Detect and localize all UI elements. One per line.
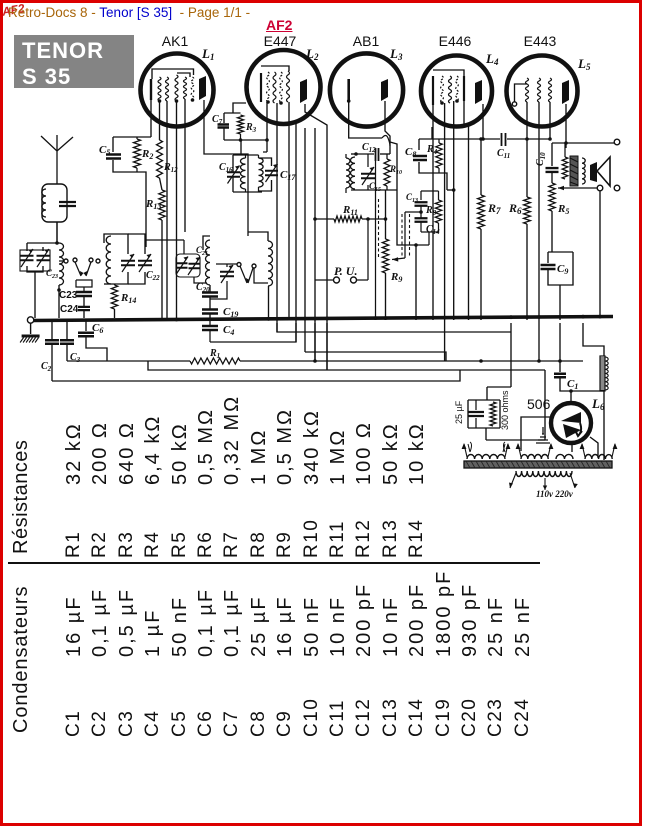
table row C20 <box>459 698 480 737</box>
table row C7 <box>221 710 242 737</box>
svg-text:R11: R11 <box>342 204 358 217</box>
table row C2 <box>89 710 110 737</box>
table row R1 <box>63 531 84 558</box>
shield dashed box <box>379 199 410 258</box>
table row R3 <box>116 531 137 558</box>
table header Resistances <box>10 440 32 554</box>
svg-text:R7: R7 <box>487 201 501 216</box>
resistor R5 potentiometer <box>549 183 570 216</box>
resistor R7 <box>478 139 501 320</box>
output terminals <box>614 139 620 145</box>
svg-text:R6: R6 <box>508 201 522 216</box>
svg-text:300 ohms: 300 ohms <box>500 390 510 430</box>
506 filament feed <box>571 442 573 452</box>
band switch contacts <box>59 258 100 276</box>
secondary winding below <box>509 471 578 499</box>
table header Condensateurs <box>10 586 32 733</box>
loudspeaker <box>590 157 610 186</box>
resistor R10 <box>384 154 402 190</box>
osc switch <box>237 263 268 284</box>
svg-text:110v 220v: 110v 220v <box>536 489 574 499</box>
svg-text:E447: E447 <box>264 33 297 49</box>
svg-text:P. U.: P. U. <box>334 264 357 278</box>
table row R6 <box>195 531 216 558</box>
tuned circuit frame <box>351 189 397 191</box>
capacitor C11 <box>497 133 510 160</box>
svg-text:E446: E446 <box>439 33 472 49</box>
wire runs E446 leads <box>432 105 434 320</box>
resistor R11 <box>313 204 387 222</box>
svg-text:R3: R3 <box>245 122 257 134</box>
anode line to output <box>552 142 614 144</box>
capacitor C5 <box>99 137 151 172</box>
svg-text:C17: C17 <box>280 169 296 182</box>
page header <box>8 5 250 20</box>
anode supply rail <box>419 138 500 140</box>
svg-text:R4: R4 <box>426 144 438 156</box>
wire runs AB1 leads <box>349 101 382 138</box>
variable capacitor C21 pair <box>145 240 208 283</box>
AK1 anode lead <box>204 100 248 236</box>
svg-text:C21: C21 <box>196 245 208 257</box>
svg-text:C11: C11 <box>497 148 510 160</box>
capacitor C23 fixed <box>59 280 92 306</box>
svg-text:25 µF: 25 µF <box>454 400 464 424</box>
trimmer C17 <box>259 158 297 191</box>
svg-text:L6: L6 <box>591 396 605 412</box>
svg-text:L5: L5 <box>577 56 591 72</box>
staircase rail 1 <box>277 323 511 332</box>
filter capacitor block 25uF 300ohms <box>454 387 511 430</box>
svg-text:R5: R5 <box>557 203 569 216</box>
table row C10 <box>301 698 322 737</box>
speaker wiper line <box>558 187 597 189</box>
table row C11 <box>327 699 348 737</box>
header AF2 pencil note <box>1 1 26 19</box>
capacitor C8 + resistor R4 <box>405 139 456 192</box>
svg-text:R9: R9 <box>390 271 402 284</box>
coil L second <box>104 234 111 284</box>
antenna tank coil <box>42 184 76 243</box>
table row C5 <box>169 710 190 737</box>
table row R8 <box>248 531 269 558</box>
table row C13 <box>380 698 401 737</box>
svg-text:R14: R14 <box>120 292 136 305</box>
capacitor C13 <box>405 191 439 218</box>
svg-text:L3: L3 <box>389 46 403 62</box>
antenna terminal <box>27 317 33 323</box>
506 anode-left feed <box>521 417 551 451</box>
tube V2 E447 <box>247 50 321 124</box>
tube V3 AB1 <box>330 53 403 126</box>
input coil <box>57 243 63 318</box>
svg-text:506: 506 <box>527 396 551 412</box>
capacitor C3 <box>60 320 81 364</box>
table row C4 <box>142 710 163 737</box>
lower rail 3 <box>148 323 545 370</box>
variable capacitor C15 <box>361 154 381 193</box>
wire runs E447 leads <box>266 102 268 152</box>
capacitor C20 <box>196 282 218 309</box>
svg-text:C3: C3 <box>70 352 81 364</box>
resistor R2 <box>134 137 154 247</box>
staircase rail 3 <box>305 352 446 361</box>
table row C3 <box>116 710 137 737</box>
stub to E446 <box>431 127 433 139</box>
windings above core <box>467 454 505 459</box>
mains choke coil L6 <box>600 356 608 460</box>
table separator line <box>8 562 540 564</box>
bottom rail C <box>52 370 460 381</box>
svg-text:E443: E443 <box>524 33 557 49</box>
capacitor C19 <box>202 306 238 319</box>
table row R13 <box>380 519 401 558</box>
svg-text:C9: C9 <box>557 263 568 276</box>
capacitor C6 <box>78 320 107 361</box>
table row C14 <box>406 698 427 737</box>
variable capacitor C22a <box>111 234 135 284</box>
table row R2 <box>89 531 110 558</box>
capacitor C12 <box>356 142 390 161</box>
svg-text:C23: C23 <box>46 268 58 280</box>
capacitor C2 <box>41 320 59 381</box>
capacitor C4 below bus <box>202 321 234 342</box>
lower rail 2 <box>67 360 190 362</box>
svg-text:R13: R13 <box>145 198 161 211</box>
svg-text:C24: C24 <box>60 304 79 315</box>
table row R14 <box>406 519 427 558</box>
svg-text:AB1: AB1 <box>353 33 380 49</box>
svg-text:C19: C19 <box>223 306 238 319</box>
osc coil A <box>203 236 210 285</box>
IF transformer C16 C17 <box>219 141 263 192</box>
staircase rail 4 / ground return <box>314 323 316 361</box>
capacitor C10 <box>535 143 559 183</box>
svg-text:R2: R2 <box>141 148 153 161</box>
resistor R6 <box>508 139 530 320</box>
power section wires <box>544 370 546 440</box>
svg-text:C2: C2 <box>41 361 52 373</box>
output transformer primary <box>562 157 568 179</box>
svg-text:R8: R8 <box>425 205 437 217</box>
capacitor C9 <box>541 211 574 320</box>
table row C24 <box>512 698 533 737</box>
ground bus <box>32 317 613 321</box>
table row R11 <box>327 520 348 558</box>
table row C19 <box>433 698 454 737</box>
detector coil <box>346 152 358 193</box>
table row R12 <box>353 519 374 558</box>
resistor R12 <box>157 101 179 178</box>
bus drop wires right <box>559 323 561 361</box>
antenna <box>41 136 57 184</box>
svg-text:C22: C22 <box>146 270 160 282</box>
variable capacitor C22 <box>128 234 160 284</box>
transformer core <box>464 461 612 468</box>
capacitor C14 <box>409 218 440 320</box>
svg-text:L2: L2 <box>305 46 319 62</box>
horizontal connects top <box>263 151 267 153</box>
dual variable capacitor C23 <box>20 222 59 318</box>
tube V4 E446 <box>421 56 492 127</box>
resistor R1 <box>190 348 583 364</box>
table row C1 <box>63 710 84 737</box>
output transformer core <box>570 156 578 186</box>
tube V5 E443 <box>507 56 578 127</box>
model name box <box>14 35 134 88</box>
resistor R13 <box>145 178 165 320</box>
resistor R9 potentiometer <box>382 190 405 320</box>
primary winding left <box>468 442 505 452</box>
svg-text:C16: C16 <box>219 162 233 174</box>
svg-text:AK1: AK1 <box>162 33 189 49</box>
wires AK1 leads <box>150 100 152 137</box>
table row C6 <box>195 710 216 737</box>
svg-text:C12: C12 <box>362 142 376 154</box>
P.U. terminals <box>315 219 368 283</box>
osc coil B <box>248 232 273 320</box>
table row C8 <box>248 710 269 737</box>
wire runs E443 leads <box>526 102 528 139</box>
table row R10 <box>301 519 322 558</box>
staircase rail 2 <box>210 323 296 342</box>
svg-text:C6: C6 <box>92 322 103 335</box>
resistor R14 <box>111 284 136 318</box>
svg-text:C10: C10 <box>535 152 547 166</box>
small ground at transformer <box>542 427 544 434</box>
winding arrows <box>464 444 467 457</box>
table row R5 <box>169 531 190 558</box>
ground symbol left <box>30 323 32 334</box>
svg-text:C23: C23 <box>59 290 78 301</box>
table row C23 <box>485 698 506 737</box>
table row R4 <box>142 531 163 558</box>
table row R7 <box>221 531 242 558</box>
svg-text:C1: C1 <box>567 378 578 391</box>
red AF2 label <box>266 17 292 33</box>
svg-text:R10: R10 <box>389 164 402 176</box>
capacitor C1 <box>554 361 604 404</box>
mid vertical wires <box>295 123 297 342</box>
svg-text:C8: C8 <box>405 146 416 159</box>
svg-text:C4: C4 <box>223 324 234 337</box>
svg-text:R1: R1 <box>209 348 220 360</box>
bus junction dots <box>175 318 179 322</box>
table row C12 <box>353 698 374 737</box>
svg-text:L4: L4 <box>485 51 499 67</box>
resistor R8 <box>425 191 442 232</box>
svg-text:C5: C5 <box>99 144 110 157</box>
output transformer secondary <box>582 158 585 184</box>
rectifier tube 506 <box>527 396 605 443</box>
capacitor C7 + resistor R3 <box>212 103 269 142</box>
svg-text:L1: L1 <box>201 46 214 62</box>
table row C9 <box>274 710 295 737</box>
osc varcap C20 <box>210 264 238 299</box>
capacitor C24 <box>60 304 90 318</box>
tube V1 AK1 <box>141 54 214 127</box>
table row R9 <box>274 531 295 558</box>
